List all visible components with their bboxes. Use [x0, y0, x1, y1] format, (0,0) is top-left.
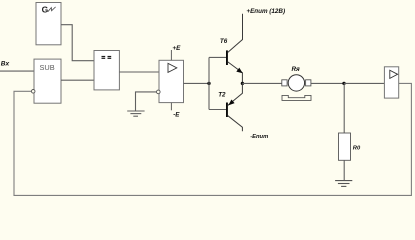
sawtooth icon: [48, 7, 56, 12]
T6 collector wire to +E supply: [228, 14, 243, 53]
ground under R0: [335, 181, 352, 187]
T2 base wire: [209, 109, 226, 111]
wire Bx input to SUB: [0, 70, 34, 72]
svg-text:+E: +E: [172, 45, 181, 52]
svg-text:-Eпит: -Eпит: [250, 134, 268, 140]
op-amp U1 triangle: [168, 63, 177, 72]
feedback amp U2 box: [384, 67, 398, 98]
wire op-amp output to transistor base bus: [184, 82, 210, 84]
wire junction to feedback amp: [344, 82, 384, 84]
wire feedback loop from amp output along right, bottom, left to SUB bubble: [14, 83, 411, 195]
op-amp U1 box: [159, 60, 184, 102]
wire motor to R0 junction: [311, 82, 344, 84]
wire junction down to R0: [343, 83, 345, 133]
T2 collector wire to -E supply: [228, 116, 243, 132]
feedback amp triangle: [390, 70, 398, 78]
svg-text:T6: T6: [220, 38, 228, 45]
T6 base wire: [209, 56, 226, 58]
-E stub: [170, 103, 172, 111]
comparator == sign: [102, 56, 112, 59]
output junction dot: [241, 82, 244, 85]
wire comparator to op-amp: [119, 71, 159, 73]
wire SUB output to comparator: [61, 79, 94, 81]
T2 emitter wire: [228, 83, 243, 105]
svg-text:G: G: [42, 5, 49, 15]
wire generator to comparator: [61, 25, 94, 61]
base bus vertical wire: [208, 57, 210, 109]
T6 emitter wire: [228, 62, 243, 84]
wire output node to motor: [242, 82, 281, 84]
svg-text:T2: T2: [218, 91, 226, 98]
svg-text:Rя: Rя: [292, 66, 301, 73]
T6 base bar: [226, 50, 228, 65]
motor armature circle: [288, 75, 304, 91]
+E stub: [170, 50, 172, 60]
comparator box: [94, 51, 119, 90]
svg-text:SUB: SUB: [40, 63, 55, 72]
inverting bubble on op-amp: [157, 90, 161, 94]
inverting bubble on SUB input: [31, 90, 35, 94]
motor right brush: [306, 80, 311, 86]
svg-text:R0: R0: [353, 146, 361, 152]
junction dot at base bus: [207, 82, 210, 85]
junction dot at R0 tap: [342, 82, 345, 85]
T2 emitter arrow: [228, 100, 234, 106]
wire op-amp inverting input to ground: [136, 92, 157, 111]
resistor R0: [339, 133, 351, 160]
T2 base bar: [226, 103, 228, 118]
subtractor SUB box: [34, 59, 61, 103]
generator G1 box: [36, 3, 61, 45]
ground under op-amp: [127, 111, 144, 116]
svg-text:Вх: Вх: [1, 61, 10, 68]
wire R0 to ground: [343, 160, 345, 180]
svg-text:+Eпит (12В): +Eпит (12В): [246, 8, 285, 15]
motor left brush: [282, 80, 287, 86]
motor stator bracket: [282, 95, 311, 100]
svg-text:-E: -E: [173, 112, 180, 119]
T6 emitter arrow: [236, 68, 242, 74]
